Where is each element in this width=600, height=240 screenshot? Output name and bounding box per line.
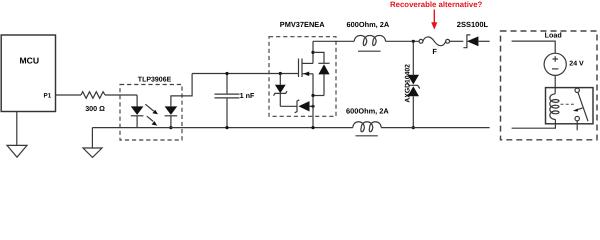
- svg-text:600Ohm, 2A: 600Ohm, 2A: [347, 20, 390, 29]
- LED D2 input (TLP): [131, 95, 144, 128]
- fuse F: [419, 37, 449, 56]
- ground (MCU): [7, 145, 27, 157]
- optocoupler U2 TLP3906E dashed box: [120, 77, 182, 141]
- svg-text:300 Ω: 300 Ω: [85, 104, 105, 113]
- svg-text:F: F: [432, 47, 437, 56]
- node junction drain / body diode: [311, 51, 314, 54]
- relay actuation arrow: [573, 108, 583, 112]
- svg-text:PMV37ENEA: PMV37ENEA: [280, 20, 325, 29]
- svg-text:Load: Load: [545, 31, 562, 40]
- light emission arrows: [145, 104, 158, 125]
- photodiode D3 output (TLP): [165, 74, 193, 128]
- diode D4 MOSFET body diode: [318, 63, 329, 95]
- node junction TVS bottom: [412, 126, 415, 129]
- svg-text:2SS100L: 2SS100L: [457, 20, 489, 29]
- source V1 24 V: [544, 53, 584, 75]
- inductor L1 600Ohm 2A (top ferrite bead): [347, 20, 390, 51]
- zener Z2 gate protection horizontal: [280, 100, 313, 113]
- svg-text:600Ohm, 2A: 600Ohm, 2A: [346, 107, 389, 116]
- diode D1 2SS100L schottky: [457, 20, 490, 48]
- relay mechanical link (dashed): [561, 103, 576, 105]
- wire resistor to LED anode: [105, 94, 137, 96]
- red annotation arrow: [431, 10, 437, 30]
- svg-text:MCU: MCU: [20, 56, 40, 66]
- wire P1 to resistor: [56, 94, 82, 96]
- svg-text:AXGD10402: AXGD10402: [405, 64, 412, 103]
- svg-text:P1: P1: [44, 93, 52, 100]
- svg-text:1 nF: 1 nF: [240, 91, 255, 100]
- wire gate rail: [192, 73, 298, 75]
- wire top rail drain to inductor: [313, 40, 354, 42]
- inductor L2 600Ohm 2A (bottom ferrite bead): [346, 107, 389, 136]
- node junction gate / zener: [279, 72, 282, 75]
- wire load entry top: [512, 41, 556, 53]
- node junction source to rail: [311, 126, 314, 129]
- svg-text:24 V: 24 V: [569, 60, 584, 67]
- resistor R1 300 Ohm: [81, 92, 105, 113]
- node junction TVS top: [412, 40, 415, 43]
- wire body diode branch top: [313, 52, 324, 63]
- capacitor C1 1 nF: [215, 74, 255, 128]
- node junction zener to source line: [311, 105, 314, 108]
- wire coil to return rail: [512, 119, 556, 128]
- wire MCU ground drop: [16, 112, 18, 146]
- wire inductor to fuse: [386, 40, 420, 42]
- node junction source/diode: [311, 94, 314, 97]
- Load dashed box: [501, 31, 598, 140]
- wire signal ground drop: [91, 128, 93, 148]
- wire source to relay coil: [554, 75, 556, 93]
- wire return rail left section: [92, 127, 352, 129]
- wire source down to return rail: [312, 96, 314, 128]
- MOSFET module U3 PMV37ENEA dashed box: [269, 20, 336, 116]
- zener Z1 gate protection vertical: [274, 74, 287, 107]
- MCU U1 box: [1, 35, 55, 112]
- relay coil: [550, 94, 559, 120]
- ground (signal return): [83, 148, 102, 157]
- svg-text:TLP3906E: TLP3906E: [138, 77, 172, 84]
- wire source to body diode bottom: [313, 95, 324, 97]
- TVS D5 AXGD10402: [405, 41, 420, 127]
- svg-text:Recoverable alternative?: Recoverable alternative?: [390, 0, 483, 9]
- transistor Q1 MOSFET: [299, 41, 314, 95]
- node junction cap top: [225, 72, 228, 75]
- node junction cap bottom: [225, 126, 228, 129]
- relay switch contact: [575, 88, 588, 130]
- node junction TLP cathode to return rail: [169, 126, 172, 129]
- relay K1 box: [546, 88, 594, 124]
- wire return rail right section: [381, 127, 489, 129]
- wire fuse to diode: [450, 40, 464, 42]
